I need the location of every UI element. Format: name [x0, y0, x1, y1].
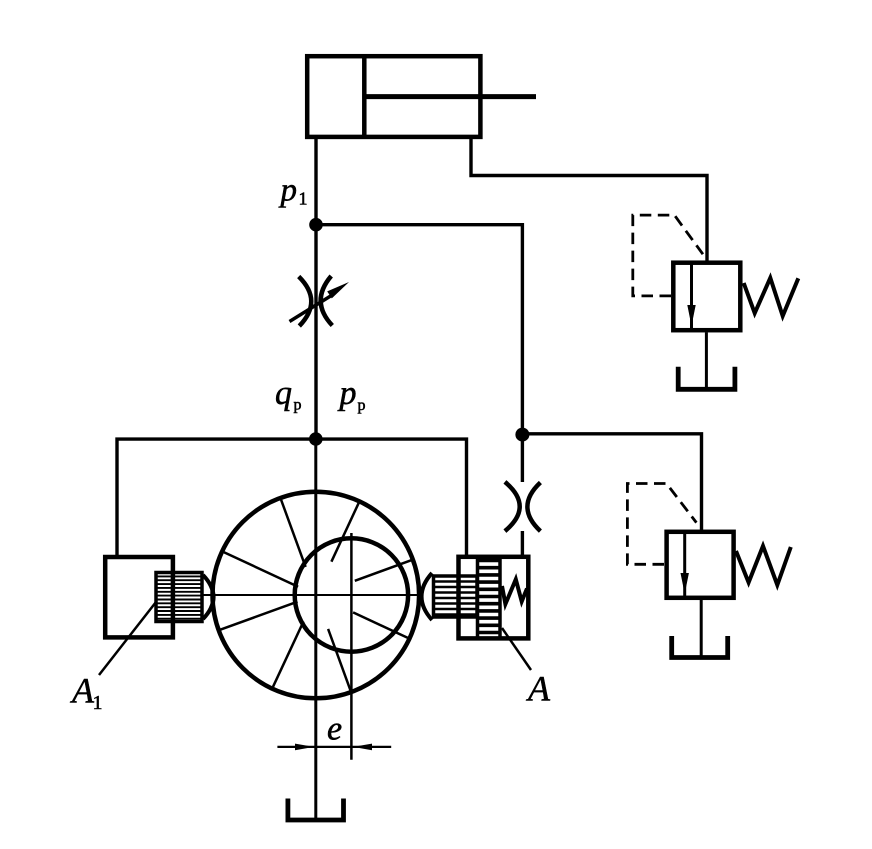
cylinder piston	[362, 56, 367, 137]
svg-text:p: p	[294, 397, 302, 414]
relief valve 2 flow path	[683, 530, 686, 599]
control piston A1 shoe	[203, 575, 214, 619]
vane 1	[355, 560, 411, 581]
vane 5	[221, 602, 298, 630]
dimension arrow left	[295, 744, 314, 751]
cylinder rod	[364, 94, 536, 99]
relief valve 1 tank	[678, 367, 735, 390]
relief valve 1 arrowhead	[687, 305, 695, 326]
label p1	[279, 173, 308, 209]
relief valve 2 box	[667, 532, 734, 598]
wire: orifice to piston A	[521, 531, 524, 555]
eccentricity dimension line	[277, 746, 391, 748]
relief valve 1 box	[673, 263, 740, 331]
pump rotor	[295, 538, 408, 651]
relief valve 1 pilot dashed line	[633, 215, 703, 296]
relief valve 2 arrowhead	[681, 573, 689, 594]
wire: cylinder right port	[471, 139, 707, 261]
svg-text:A: A	[526, 669, 551, 709]
wire: right branch down to orifice	[521, 435, 524, 482]
relief valve 2 drain	[700, 600, 703, 658]
cylinder body	[307, 56, 480, 137]
relief valve 1 drain	[705, 333, 708, 390]
node p1	[309, 218, 323, 232]
leader line A	[502, 628, 531, 670]
relief valve 1 spring	[744, 278, 799, 316]
pump rotor axis	[350, 533, 353, 760]
svg-text:1: 1	[93, 692, 103, 714]
node right branch	[515, 428, 529, 442]
relief valve 1 flow path	[690, 261, 693, 332]
svg-text:1: 1	[299, 189, 308, 209]
variable throttle left arc	[299, 277, 312, 327]
pump stator ring	[212, 492, 419, 699]
control piston A hatched stem	[434, 576, 478, 617]
node pump junction	[309, 432, 323, 446]
relief valve 2 spring	[736, 546, 791, 585]
wire: junction horizontal to left and right control pistons	[117, 439, 467, 555]
wire: p1 node to right branch	[316, 225, 522, 435]
leader line A1	[99, 602, 156, 675]
svg-text:q: q	[275, 375, 292, 412]
control piston A1 hatched piston	[156, 573, 202, 622]
control piston A box	[459, 557, 529, 639]
vane 7	[281, 500, 306, 567]
wire: right branch to lower valve	[522, 434, 701, 530]
pump tank	[288, 799, 344, 821]
svg-text:p: p	[358, 397, 366, 414]
fixed orifice left arc	[505, 482, 520, 531]
dimension arrow right	[353, 744, 372, 751]
label e	[327, 711, 342, 748]
fixed orifice right arc	[527, 483, 540, 532]
label pp	[338, 375, 366, 414]
control piston A spring	[502, 579, 527, 604]
control piston A shoe	[422, 573, 433, 620]
relief valve 2 pilot dashed line	[627, 484, 696, 565]
svg-text:e: e	[327, 711, 342, 748]
variable throttle arrow	[290, 282, 350, 322]
relief valve 2 tank	[672, 636, 728, 658]
wire: p1 down through throttle to pump junction	[314, 225, 317, 439]
vane 3	[328, 629, 350, 690]
vane 8	[331, 503, 358, 562]
svg-text:p: p	[338, 375, 357, 412]
label A1	[70, 671, 103, 715]
label qp	[275, 375, 302, 414]
vane 6	[224, 552, 298, 587]
vane 4	[273, 622, 304, 687]
control piston A hatched band	[478, 556, 501, 639]
control piston A1 box	[105, 557, 173, 637]
wire: pump suction line down to tank	[314, 439, 317, 820]
label A	[526, 669, 551, 709]
variable throttle right arc	[321, 276, 333, 326]
svg-text:p: p	[279, 173, 298, 209]
pump horizontal centerline	[203, 594, 421, 596]
wire: cylinder left port down to junction p1	[314, 139, 317, 226]
vane 2	[353, 612, 408, 637]
svg-text:A: A	[70, 671, 95, 711]
